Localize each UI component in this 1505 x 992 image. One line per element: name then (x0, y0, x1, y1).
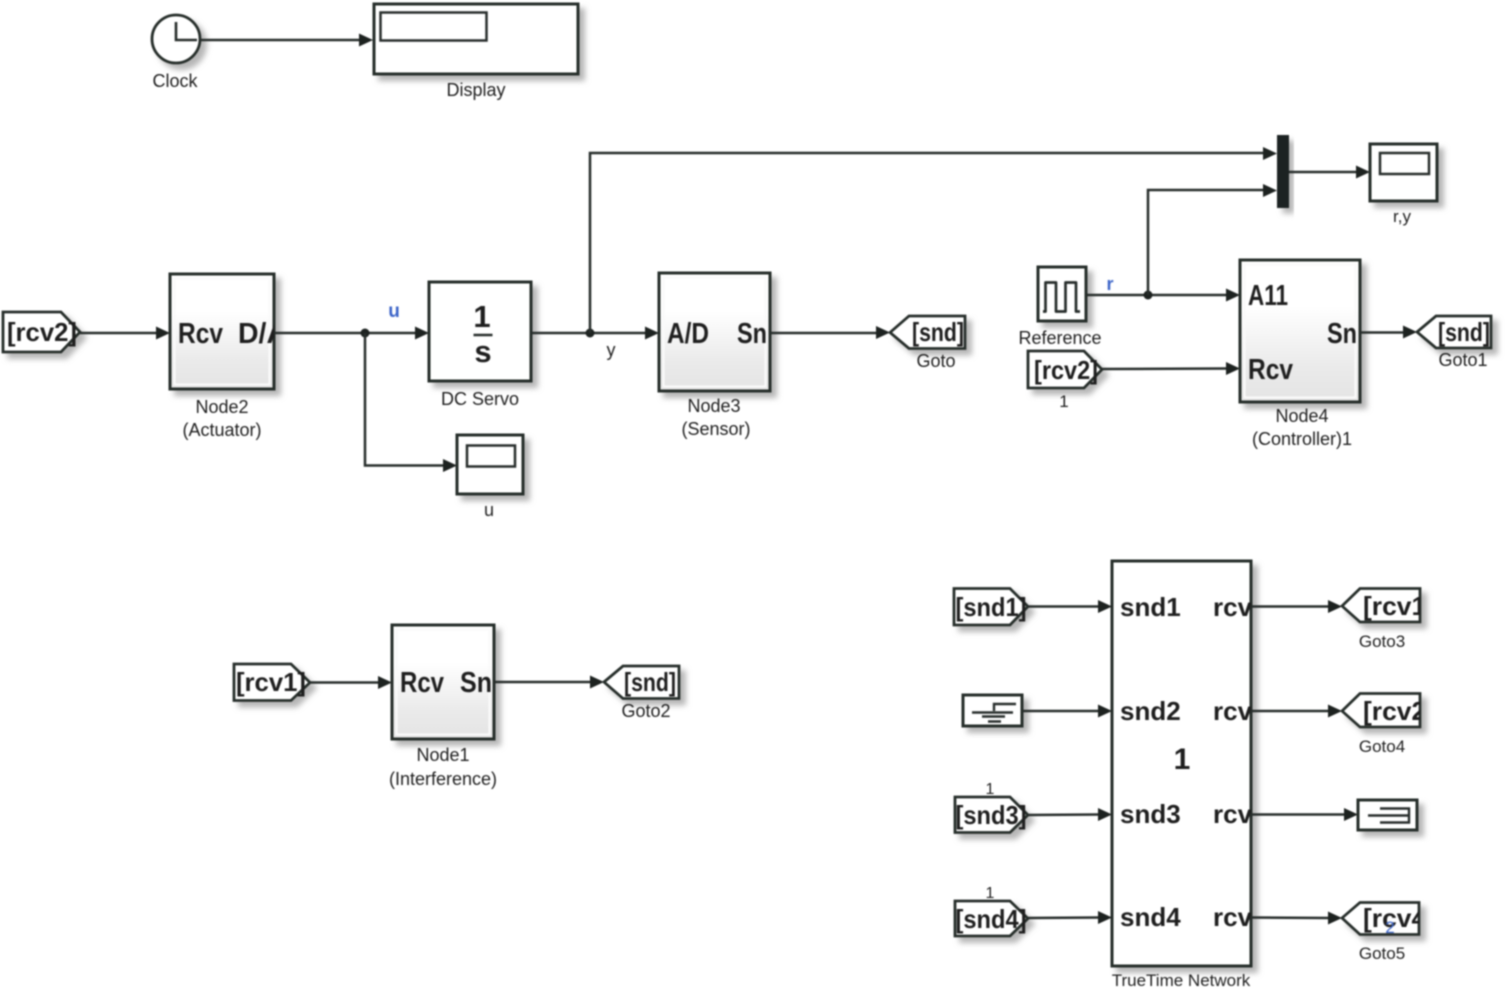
svg-text:Node4: Node4 (1275, 406, 1328, 426)
svg-text:[snd4]: [snd4] (956, 904, 1027, 934)
svg-text:Reference: Reference (1018, 328, 1101, 348)
wire rcv2 to Node4 Rcv (1102, 362, 1240, 375)
from tag snd3 (955, 797, 1028, 833)
wire mux to scope r,y (1289, 166, 1370, 179)
svg-text:1: 1 (1174, 743, 1191, 776)
pulse generator block Reference (1038, 267, 1086, 321)
svg-text:snd3: snd3 (1120, 799, 1181, 829)
from tag snd1 (954, 589, 1028, 626)
wire snd3 to network (1028, 808, 1112, 821)
wire network rcv3 to terminator (1251, 808, 1358, 821)
svg-text:[rcv1]: [rcv1] (236, 667, 306, 697)
svg-text:[snd]: [snd] (912, 317, 964, 347)
wire rcv1 to Node1 (310, 676, 392, 689)
node block Node4 (Controller)1 (1240, 260, 1360, 402)
clock block (152, 15, 200, 63)
svg-text:Clock: Clock (152, 71, 198, 91)
network block TrueTime Network (1112, 561, 1267, 966)
wire Node3 to Goto (770, 326, 890, 339)
wire r up to mux input 2 (1148, 184, 1277, 295)
scope block u (457, 435, 523, 494)
svg-text:snd4: snd4 (1120, 902, 1181, 932)
wire DC Servo to Node3 (531, 327, 659, 340)
svg-text:s: s (474, 334, 491, 369)
svg-text:A11: A11 (1248, 280, 1288, 312)
svg-text:2: 2 (1385, 918, 1394, 937)
svg-text:[snd3]: [snd3] (956, 800, 1027, 830)
wire network rcv2 to Goto4 (1251, 705, 1342, 718)
junction node y (586, 329, 595, 338)
svg-text:Rcv: Rcv (178, 318, 223, 350)
wire Node2 to DC Servo (274, 327, 429, 340)
svg-text:Sn: Sn (737, 318, 767, 350)
wire clock to display (200, 34, 373, 47)
svg-text:Node3: Node3 (687, 396, 740, 416)
goto tag rcv4 (Goto5) (1342, 903, 1435, 938)
from tag rcv2 (1) (1028, 351, 1102, 388)
wire snd1 to network (1028, 600, 1112, 613)
svg-text:(Actuator): (Actuator) (182, 420, 261, 440)
svg-text:snd1: snd1 (1120, 592, 1181, 622)
integrator block DC Servo (429, 282, 531, 381)
svg-text:(Interference): (Interference) (389, 769, 497, 789)
junction node r (1144, 291, 1153, 300)
svg-text:1: 1 (473, 299, 490, 334)
svg-text:Goto: Goto (916, 351, 955, 371)
svg-text:[rcv2]: [rcv2] (7, 317, 77, 347)
svg-text:r,y: r,y (1393, 207, 1411, 226)
svg-text:Rcv: Rcv (1248, 354, 1293, 386)
scope block r,y (1370, 144, 1437, 201)
goto tag rcv (Goto3) (1342, 589, 1435, 623)
svg-text:r: r (1106, 274, 1113, 294)
svg-text:snd2: snd2 (1120, 696, 1181, 726)
wire Node1 to Goto2 (494, 676, 604, 689)
wire Reference to Node4 A11 (1086, 289, 1240, 302)
from tag rcv1 (234, 664, 310, 701)
wire step to network snd2 (1022, 705, 1112, 718)
wire snd4 to network (1028, 911, 1112, 924)
svg-text:(Controller)1: (Controller)1 (1252, 429, 1352, 449)
svg-text:Goto4: Goto4 (1359, 737, 1405, 756)
svg-text:y: y (607, 340, 616, 360)
junction node u (361, 329, 370, 338)
svg-text:TrueTime Network: TrueTime Network (1112, 971, 1251, 990)
svg-text:u: u (484, 500, 494, 520)
svg-text:(Sensor): (Sensor) (681, 419, 750, 439)
wire y up and across to mux input 1 (590, 147, 1277, 333)
svg-text:Goto1: Goto1 (1438, 350, 1487, 370)
svg-text:1: 1 (986, 781, 995, 798)
svg-text:Goto5: Goto5 (1359, 944, 1405, 963)
svg-text:[snd]: [snd] (1438, 317, 1490, 347)
step source block (963, 695, 1022, 726)
svg-text:[rcv4]: [rcv4] (1363, 903, 1435, 933)
svg-text:[rcv2]: [rcv2] (1363, 696, 1435, 726)
svg-text:1: 1 (1059, 392, 1068, 411)
svg-text:[rcv2]: [rcv2] (1034, 355, 1098, 385)
svg-text:Node1: Node1 (416, 745, 469, 765)
wire network rcv1 to Goto3 (1251, 600, 1342, 613)
node block Node2 (Actuator) (170, 274, 287, 389)
goto tag snd (Goto2) (604, 666, 679, 699)
wire network rcv4 to Goto5 (1251, 912, 1342, 925)
wire Node4 Sn to Goto1 (1360, 326, 1417, 339)
svg-text:DC Servo: DC Servo (441, 389, 519, 409)
display block Display (374, 4, 578, 74)
svg-text:Goto3: Goto3 (1359, 632, 1405, 651)
wire branch down to scope u (365, 333, 457, 472)
svg-text:Display: Display (446, 80, 505, 100)
svg-text:Sn: Sn (460, 667, 492, 699)
goto tag snd (Goto1) (1417, 316, 1491, 348)
node block Node1 (Interference) (392, 625, 494, 739)
svg-text:1: 1 (986, 885, 995, 902)
svg-text:[snd1]: [snd1] (956, 592, 1027, 622)
svg-text:Rcv: Rcv (400, 667, 444, 699)
from tag rcv2 (left) (3, 312, 80, 352)
svg-text:Goto2: Goto2 (621, 701, 670, 721)
wire rcv2 to Node2 (80, 327, 170, 340)
svg-text:[rcv1]: [rcv1] (1363, 591, 1435, 621)
svg-text:[snd]: [snd] (624, 667, 676, 697)
from tag snd4 (955, 901, 1028, 936)
workspace sink block (1358, 800, 1417, 830)
svg-text:Sn: Sn (1327, 318, 1357, 350)
mux bar (1277, 135, 1289, 208)
goto tag snd (Goto) (890, 316, 965, 349)
goto tag rcv2 (Goto4) (1342, 694, 1435, 728)
node block Node3 (Sensor) (659, 273, 770, 391)
svg-text:A/D: A/D (667, 318, 709, 350)
svg-text:Node2: Node2 (195, 397, 248, 417)
svg-text:u: u (388, 301, 400, 322)
